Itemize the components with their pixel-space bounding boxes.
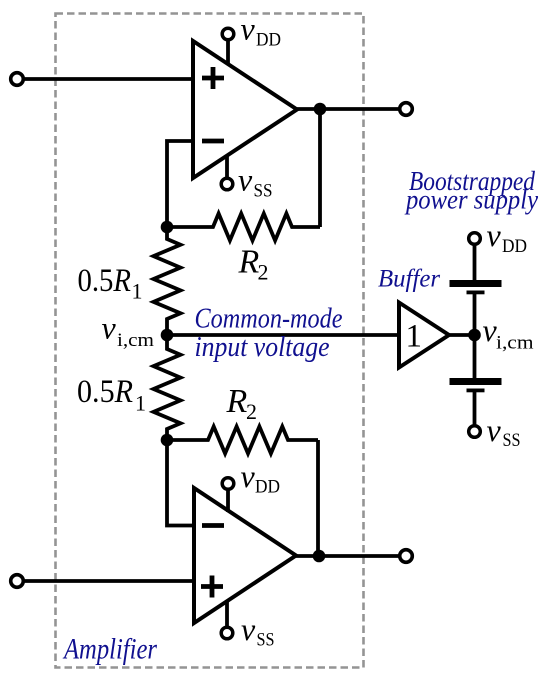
svg-text:v: v	[241, 458, 256, 494]
U1 vss terminal	[221, 178, 233, 190]
wire: U2 output to terminal	[296, 554, 406, 558]
svg-text:DD: DD	[256, 30, 281, 51]
wire: BT2 to vss	[473, 392, 477, 426]
vicm left label	[102, 310, 155, 352]
svg-text:0.5R: 0.5R	[78, 263, 132, 299]
svg-text:1: 1	[132, 279, 143, 304]
U2 vss lead	[225, 600, 229, 627]
svg-text:v: v	[241, 611, 256, 647]
battery vss label	[487, 412, 521, 451]
svg-text:SS: SS	[503, 430, 521, 451]
svg-text:v: v	[241, 11, 256, 47]
U2 vss terminal	[221, 627, 233, 639]
vicm right label	[483, 312, 534, 354]
wire: vdd to top battery	[473, 244, 477, 280]
wire: bottom feedback rise	[316, 440, 320, 556]
svg-text:Buffer: Buffer	[378, 266, 440, 293]
U2 vdd terminal	[222, 478, 234, 490]
buffer U3	[399, 303, 449, 368]
svg-text:2: 2	[258, 260, 269, 285]
svg-text:R: R	[238, 244, 260, 281]
svg-text:v: v	[487, 412, 502, 448]
resistor 0.5R1 (upper)	[154, 227, 181, 335]
svg-text:2: 2	[246, 399, 257, 424]
svg-text:DD: DD	[502, 236, 527, 257]
U2 vdd lead	[226, 489, 230, 512]
output terminal bottom-right	[400, 550, 413, 563]
wire: U1 output to terminal	[297, 107, 406, 111]
op-amp U1 (top)	[193, 41, 297, 178]
battery BT2 short plate	[467, 389, 485, 393]
op-amp U2 (bottom)	[194, 488, 296, 623]
wire: BT1 to node	[473, 294, 477, 335]
node: bootstrap midpoint	[468, 329, 481, 342]
U1 plus sign	[202, 67, 224, 89]
battery BT1 short plate	[467, 291, 485, 295]
battery vss terminal	[469, 426, 481, 438]
0.5R1 upper label	[78, 263, 143, 304]
node: U2 output junction	[313, 550, 326, 563]
svg-text:R: R	[226, 383, 248, 420]
wire: top input	[24, 77, 193, 81]
U1 vss lead	[225, 155, 229, 178]
R2 top label	[238, 244, 269, 285]
wire: U2 inverting input	[167, 440, 194, 526]
wire: U1 feedback drop	[318, 109, 322, 227]
input terminal top-left	[11, 73, 24, 86]
node vicm (middle)	[161, 329, 174, 342]
svg-text:v: v	[238, 162, 253, 198]
U2 minus sign	[202, 523, 224, 528]
svg-text:input voltage: input voltage	[195, 331, 330, 363]
svg-text:0.5R: 0.5R	[77, 374, 133, 410]
wire: node to bottom battery	[473, 335, 477, 378]
output terminal top-right	[400, 103, 413, 116]
svg-text:v: v	[102, 310, 117, 346]
label: Common-mode input voltage	[195, 303, 343, 364]
wire: vicm to buffer	[167, 333, 399, 337]
svg-text:1: 1	[135, 391, 146, 416]
svg-text:1: 1	[406, 319, 423, 355]
battery vdd label	[487, 217, 528, 257]
battery BT2 long plate	[450, 378, 502, 385]
battery BT1 long plate	[450, 280, 502, 287]
label: Bootstrapped power supply	[404, 166, 538, 215]
U1 vdd terminal	[222, 28, 234, 40]
U2 vdd label	[241, 458, 281, 498]
resistor 0.5R1 (lower)	[154, 335, 181, 440]
node A (top junction)	[161, 221, 174, 234]
svg-text:SS: SS	[254, 181, 273, 202]
wire: bottom input	[24, 579, 194, 583]
U1 vdd lead	[226, 40, 230, 65]
svg-text:v: v	[487, 217, 502, 253]
wire: buffer output	[449, 333, 475, 337]
svg-text:power supply: power supply	[404, 185, 538, 215]
U2 vss label	[241, 611, 275, 651]
svg-text:Amplifier: Amplifier	[62, 633, 157, 666]
resistor R2 (top)	[167, 214, 320, 241]
U1 minus sign	[202, 139, 224, 144]
svg-text:SS: SS	[257, 630, 275, 651]
node B (bottom junction)	[161, 434, 174, 447]
0.5R1 lower label	[77, 374, 146, 416]
svg-text:i,cm: i,cm	[117, 330, 154, 351]
wire: U1 inverting input	[167, 141, 193, 227]
R2 bottom label	[226, 383, 258, 424]
svg-text:i,cm: i,cm	[496, 333, 534, 354]
amplifier dashed box	[56, 14, 364, 668]
U1 vss label	[238, 162, 273, 202]
resistor R2 (bottom)	[167, 427, 318, 454]
node: U1 output junction	[314, 103, 327, 116]
battery vdd terminal	[469, 233, 481, 245]
input terminal bottom-left	[11, 575, 24, 588]
U2 plus sign	[201, 576, 223, 598]
svg-text:DD: DD	[255, 477, 280, 498]
svg-text:Common-mode: Common-mode	[195, 303, 343, 335]
U1 vdd label	[241, 11, 282, 51]
